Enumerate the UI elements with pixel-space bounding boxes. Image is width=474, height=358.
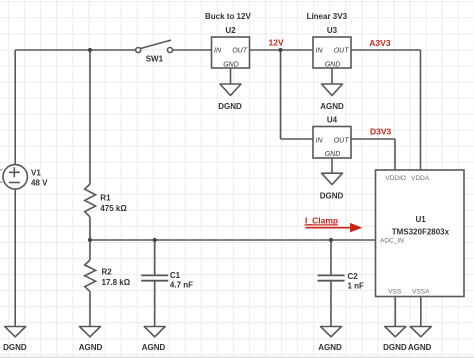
node divider junction dot xyxy=(88,238,92,242)
svg-text:C2: C2 xyxy=(348,272,359,281)
svg-text:VDDIO: VDDIO xyxy=(385,175,406,182)
svg-text:AGND: AGND xyxy=(142,343,166,352)
resistor R1 xyxy=(85,184,96,217)
svg-text:TMS320F2803x: TMS320F2803x xyxy=(392,227,450,236)
wire U4 GND pin xyxy=(331,158,333,173)
svg-text:R2: R2 xyxy=(102,268,113,277)
svg-text:D3V3: D3V3 xyxy=(370,127,392,137)
regulator U3 xyxy=(313,37,351,68)
wire node to C2 xyxy=(330,240,332,275)
svg-text:IN: IN xyxy=(316,48,324,55)
svg-text:GND: GND xyxy=(325,151,341,158)
page edge left clipped circle xyxy=(0,170,3,183)
wire node row to U1 ADC_IN xyxy=(90,239,376,241)
regulator U4 xyxy=(313,127,351,159)
wire top-left horizontal to SW1 xyxy=(15,49,135,51)
resistor R2 xyxy=(85,260,96,292)
current label I_Clamp xyxy=(305,216,363,233)
svg-text:VSSA: VSSA xyxy=(412,289,430,296)
wire SW1 to U2 IN xyxy=(172,49,211,51)
wire 12V node down xyxy=(280,50,282,139)
svg-text:IN: IN xyxy=(316,137,324,144)
svg-text:R1: R1 xyxy=(100,193,111,202)
wire node to C1 xyxy=(154,240,156,275)
ground DGND under U1 VSS xyxy=(383,327,407,353)
wire A3V3 down to U1 VDDA xyxy=(420,50,422,170)
wire R1 bottom to node xyxy=(89,217,91,240)
ground AGND under U1 VSSA xyxy=(408,327,432,353)
svg-text:Linear 3V3: Linear 3V3 xyxy=(307,12,348,21)
wire U2 GND pin xyxy=(230,68,232,84)
svg-text:AGND: AGND xyxy=(408,343,432,352)
svg-text:AGND: AGND xyxy=(318,343,342,352)
wire to U4 IN xyxy=(281,138,314,140)
svg-text:ADC_IN: ADC_IN xyxy=(380,238,404,245)
ground DGND under U4 xyxy=(320,173,344,200)
wire U4 OUT to D3V3 corner xyxy=(351,138,395,140)
wire C2 to ground xyxy=(330,281,332,327)
wire D3V3 down to U1 VDDIO xyxy=(394,139,396,170)
svg-text:U4: U4 xyxy=(327,115,338,124)
wire C1 to ground xyxy=(154,281,156,327)
wire node to R2 xyxy=(89,240,91,260)
svg-text:I_Clamp: I_Clamp xyxy=(305,216,338,226)
svg-text:AGND: AGND xyxy=(79,343,103,352)
ground AGND under C2 xyxy=(318,327,342,353)
node R1 branch junction dot xyxy=(88,48,92,52)
ground AGND under C1 xyxy=(142,327,166,353)
svg-text:SW1: SW1 xyxy=(146,54,164,63)
wire U1 VSSA pin xyxy=(420,297,422,327)
regulator U2 xyxy=(212,37,250,68)
wire R2 to ground xyxy=(89,292,91,327)
svg-text:IN: IN xyxy=(214,48,222,55)
node C1 junction dot xyxy=(153,238,157,242)
switch SW1 xyxy=(136,40,173,52)
node 12V junction dot xyxy=(278,48,282,52)
ground AGND under R2 xyxy=(79,327,103,353)
svg-text:OUT: OUT xyxy=(232,48,248,55)
wire U3 OUT to A3V3 corner xyxy=(351,49,421,51)
svg-text:12V: 12V xyxy=(269,38,284,48)
wire U2 OUT to U3 IN xyxy=(250,49,314,51)
svg-text:V1: V1 xyxy=(31,168,41,177)
svg-text:VSS: VSS xyxy=(388,289,402,296)
svg-text:4.7 nF: 4.7 nF xyxy=(170,281,193,290)
wire U1 VSS pin xyxy=(394,297,396,327)
ground DGND under V1 xyxy=(3,327,27,353)
svg-text:AGND: AGND xyxy=(320,102,344,111)
svg-text:DGND: DGND xyxy=(218,102,242,111)
wire U3 GND pin xyxy=(331,68,333,84)
svg-text:Buck to 12V: Buck to 12V xyxy=(205,12,251,21)
svg-text:1 nF: 1 nF xyxy=(348,282,365,291)
svg-text:VDDA: VDDA xyxy=(411,175,430,182)
svg-text:OUT: OUT xyxy=(334,137,350,144)
svg-text:A3V3: A3V3 xyxy=(369,38,391,48)
wire V1 top xyxy=(14,50,16,165)
svg-text:GND: GND xyxy=(325,61,341,68)
svg-text:OUT: OUT xyxy=(334,48,350,55)
svg-text:U2: U2 xyxy=(225,26,236,35)
svg-text:48 V: 48 V xyxy=(31,179,48,188)
svg-text:475 kΩ: 475 kΩ xyxy=(100,204,127,213)
voltage source V1 xyxy=(3,165,27,189)
MCU U1 TMS320F2803x xyxy=(376,170,465,297)
ground DGND under U2 xyxy=(218,84,242,111)
svg-text:DGND: DGND xyxy=(383,343,407,352)
capacitor C1 xyxy=(141,275,168,280)
page edge bottom xyxy=(0,357,474,358)
svg-text:17.8 kΩ: 17.8 kΩ xyxy=(102,278,131,287)
node C2 junction dot xyxy=(329,238,333,242)
svg-text:DGND: DGND xyxy=(3,343,27,352)
svg-text:U3: U3 xyxy=(327,26,338,35)
wire R1 branch down xyxy=(89,50,91,184)
svg-text:C1: C1 xyxy=(170,271,181,280)
svg-text:GND: GND xyxy=(223,61,239,68)
svg-text:DGND: DGND xyxy=(320,191,344,200)
capacitor C2 xyxy=(318,275,345,280)
svg-text:U1: U1 xyxy=(415,215,426,224)
ground AGND under U3 xyxy=(320,84,344,111)
wire V1 bottom to ground xyxy=(14,189,16,327)
